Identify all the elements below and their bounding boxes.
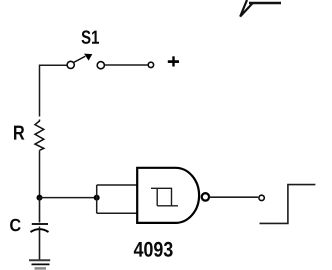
wire: output xyxy=(210,196,259,198)
switch S1 right contact xyxy=(97,62,104,69)
wire: node A to capacitor xyxy=(39,198,41,223)
wire: left vertical top segment + corner to switch xyxy=(40,65,68,116)
wire: resistor to node A xyxy=(39,150,41,195)
output terminal circle xyxy=(259,195,264,200)
resistor R xyxy=(35,120,44,151)
wire: switch to + terminal xyxy=(105,64,148,66)
hysteresis symbol xyxy=(151,188,178,206)
output bubble xyxy=(202,193,209,200)
capacitor center tick xyxy=(39,227,41,231)
label 4093 xyxy=(134,242,173,257)
label C xyxy=(10,219,21,232)
speech-bubble tail (cropped annotation, top right) xyxy=(240,0,281,17)
wire: capacitor to ground xyxy=(39,230,41,260)
wire: input tie bracket xyxy=(97,185,138,213)
capacitor C top plate xyxy=(32,223,48,225)
capacitor C bottom curved plate xyxy=(31,229,49,232)
label S1 xyxy=(82,30,99,43)
+ symbol xyxy=(168,56,179,66)
gate-input junction dot xyxy=(94,195,100,201)
label R xyxy=(14,126,24,140)
terminal circle (+ supply) xyxy=(148,62,153,67)
switch S1 arrowhead xyxy=(84,54,92,61)
step waveform (output) xyxy=(260,185,316,224)
ground xyxy=(29,260,50,268)
wire: node A to gate-input node xyxy=(40,197,95,199)
node A junction dot xyxy=(37,195,43,201)
NAND gate U1 (4093) body xyxy=(137,168,199,223)
switch S1 lever xyxy=(74,56,85,62)
switch S1 left contact xyxy=(67,61,74,68)
